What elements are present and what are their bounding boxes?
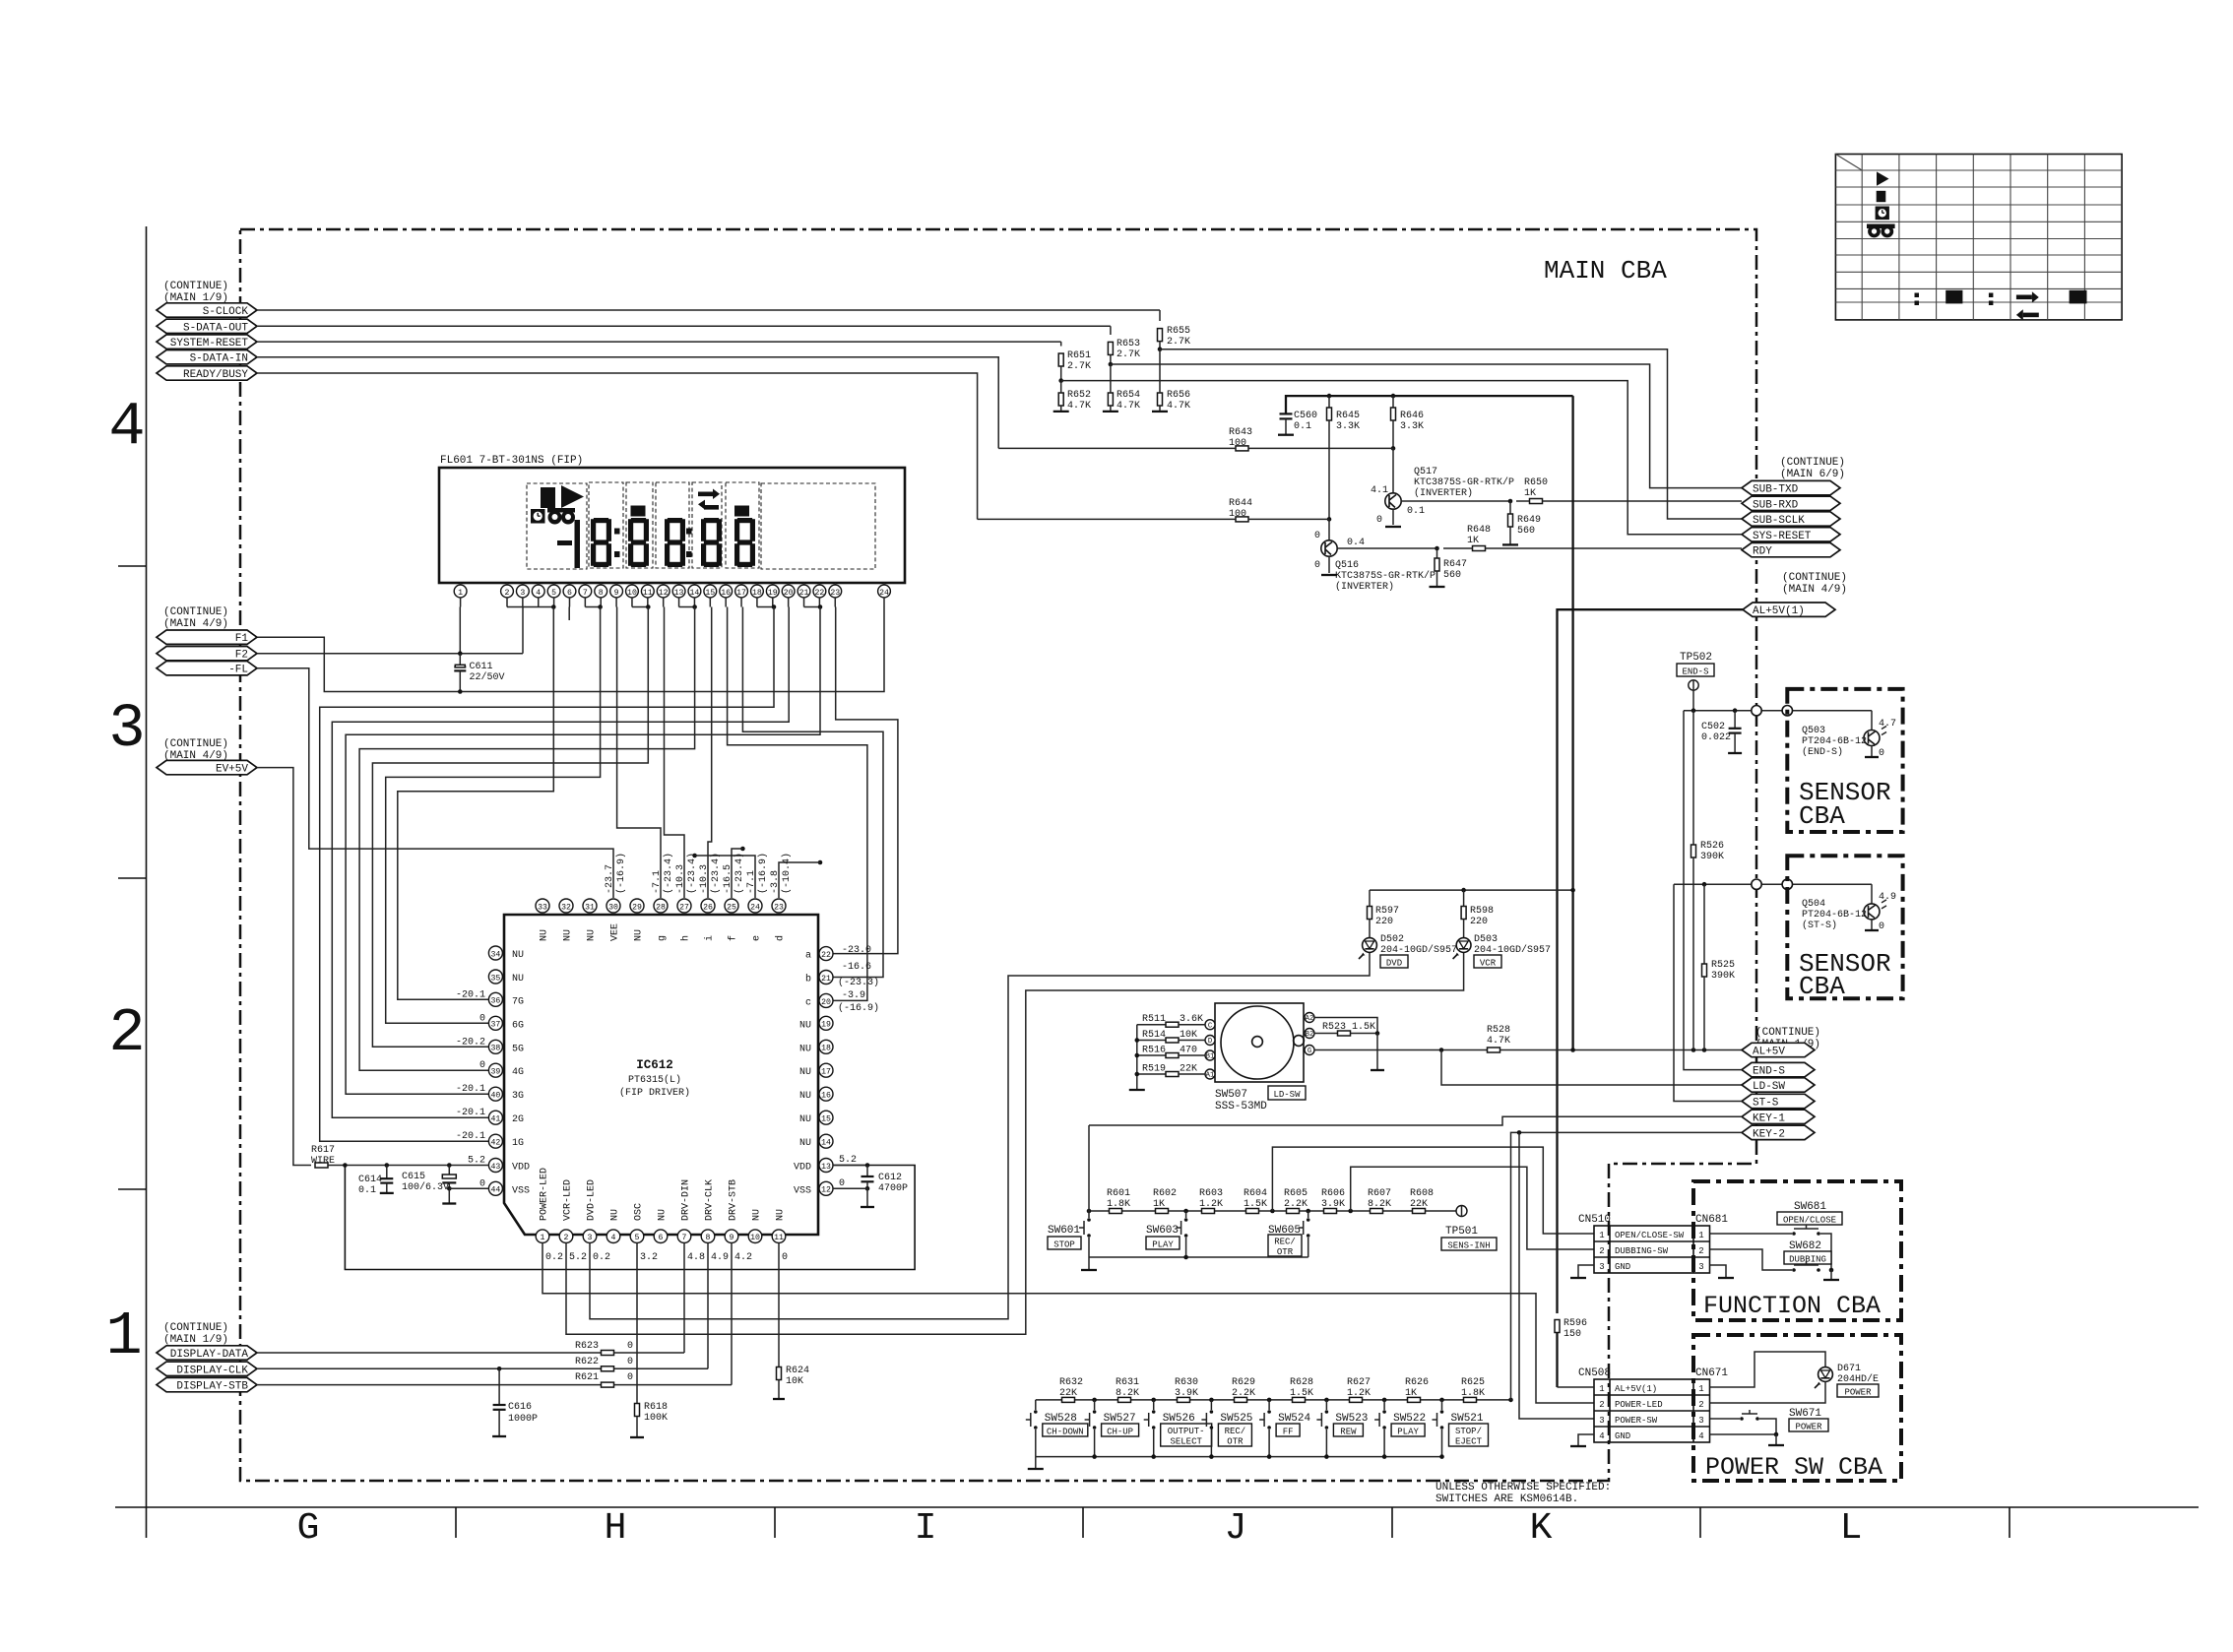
svg-text:4: 4 [1599,1431,1604,1441]
svg-text:C611: C611 [470,662,493,672]
svg-text:OPEN/CLOSE: OPEN/CLOSE [1783,1215,1836,1225]
svg-text:0: 0 [1879,921,1884,932]
svg-text:(-23.3): (-23.3) [838,977,879,988]
svg-text:R646: R646 [1400,411,1424,421]
node DISPLAY-STB flag [157,1377,257,1391]
svg-text:FF: FF [1283,1427,1294,1436]
svg-text:(INVERTER): (INVERTER) [1414,487,1473,499]
svg-text:3.9K: 3.9K [1321,1199,1345,1210]
svg-text:Q516: Q516 [1335,560,1359,571]
svg-text:6: 6 [567,589,572,598]
svg-text:REC/: REC/ [1274,1238,1296,1247]
R516 body [1166,1053,1179,1058]
svg-text:0.022: 0.022 [1701,732,1731,743]
svg-text:R628: R628 [1290,1377,1313,1388]
svg-text:0: 0 [627,1372,633,1383]
svg-text:R618: R618 [644,1402,668,1413]
resistor R626 [1408,1397,1421,1402]
svg-text:4.7K: 4.7K [1067,401,1091,412]
wire ST-S horizontal [1674,883,1872,885]
svg-text:GND: GND [1615,1431,1630,1441]
svg-text:b: b [805,974,811,985]
svg-text:R597: R597 [1375,906,1399,917]
svg-text:4: 4 [611,1234,616,1242]
svg-text:0: 0 [1314,531,1320,541]
svg-text:R526: R526 [1700,841,1724,852]
svg-text:33: 33 [538,903,547,912]
svg-text:1.5K: 1.5K [1290,1388,1313,1399]
svg-text:SYSTEM-RESET: SYSTEM-RESET [170,338,249,349]
svg-text:7: 7 [583,589,588,598]
svg-text:F2: F2 [235,650,248,662]
svg-text:0.4: 0.4 [1347,538,1365,548]
svg-text:19: 19 [821,1021,831,1030]
svg-text:11: 11 [643,589,653,598]
svg-text:A1: A1 [1206,1072,1215,1080]
svg-text:R644: R644 [1229,498,1252,509]
svg-text:R617: R617 [311,1145,335,1156]
wire to SUB-SCLK [1160,349,1742,519]
wire END-S to flag [1684,711,1742,1070]
svg-text:(-10.4): (-10.4) [781,853,793,894]
svg-text:26: 26 [703,903,713,912]
svg-text:-23.7: -23.7 [605,864,615,894]
svg-text:44: 44 [490,1186,500,1195]
resistor R523 [1314,1033,1338,1035]
svg-text:3.3K: 3.3K [1400,421,1424,432]
svg-text:43: 43 [490,1163,500,1172]
R623 body [602,1351,614,1356]
svg-text:G: G [1308,1048,1311,1055]
svg-text:R523 1.5K: R523 1.5K [1322,1022,1375,1033]
svg-text:NU: NU [776,1209,787,1221]
LED D671 POWER [1710,1352,1826,1387]
node SUB-RXD flag [1742,496,1840,510]
svg-text:VCR-LED: VCR-LED [563,1179,574,1221]
svg-text:1: 1 [1698,1231,1703,1240]
svg-text:22: 22 [821,951,831,960]
svg-text:8: 8 [706,1234,711,1242]
svg-text:REC/: REC/ [1225,1427,1246,1436]
svg-text:4.7: 4.7 [1879,719,1896,730]
svg-text:D503: D503 [1474,934,1498,945]
svg-text:3: 3 [520,589,525,598]
svg-text:SW521: SW521 [1451,1413,1484,1425]
resistor R656 [1158,393,1163,406]
svg-text:e: e [752,935,763,941]
svg-text:END-S: END-S [1753,1066,1785,1078]
resistor R653 [1108,342,1113,354]
svg-text:8.2K: 8.2K [1368,1199,1391,1210]
resistor R526 [1692,711,1694,845]
svg-text:5: 5 [635,1234,640,1242]
7-segment digits 8 8 8 8 8 [591,518,755,567]
svg-text:OSC: OSC [634,1203,645,1221]
svg-text:21: 21 [799,589,809,598]
svg-text:16: 16 [721,589,731,598]
svg-text:G: G [297,1507,320,1550]
svg-text:3.3K: 3.3K [1336,421,1360,432]
switch SW525 [1210,1400,1212,1410]
wire segment a b c nets to IC right pins [833,607,898,954]
svg-text:R603: R603 [1199,1188,1223,1199]
svg-text:NU: NU [799,1044,811,1054]
svg-text:KTC3875S-GR-RTK/P: KTC3875S-GR-RTK/P [1335,570,1435,582]
wire S-DATA-OUT [257,325,1111,327]
resistor R651 [1058,353,1063,366]
svg-text:PLAY: PLAY [1152,1239,1174,1249]
svg-text:POWER: POWER [1844,1387,1872,1397]
IC612 right pins 22-12 [819,947,833,961]
switch SW528 [1035,1400,1037,1410]
svg-text:-20.2: -20.2 [456,1037,485,1048]
svg-text:R598: R598 [1470,906,1494,917]
svg-text:4.9: 4.9 [711,1252,729,1263]
svg-text:31: 31 [585,903,595,912]
svg-text:NU: NU [658,1209,669,1221]
legend right arrow [2016,295,2032,300]
svg-text:2: 2 [564,1234,569,1242]
svg-text:TP502: TP502 [1680,652,1712,664]
svg-text:(ST-S): (ST-S) [1802,920,1837,931]
resistor R655 [1158,329,1163,342]
icon cassette [547,508,575,513]
svg-text:-10.3: -10.3 [675,864,686,894]
SENSOR CBA box 2 [1787,856,1902,998]
svg-text:R514: R514 [1142,1030,1166,1041]
resistor R602 [1156,1209,1169,1214]
resistor R514 [1137,1040,1166,1042]
svg-text:SW522: SW522 [1393,1413,1426,1425]
svg-text:DUBBING: DUBBING [1789,1254,1826,1264]
svg-text:STOP/: STOP/ [1455,1427,1482,1436]
resistor R511 [1137,1024,1166,1026]
svg-text:(-23.4): (-23.4) [710,853,722,894]
node SUB-SCLK flag [1742,512,1840,526]
svg-text:h: h [680,935,692,941]
svg-text:R525: R525 [1711,960,1735,971]
svg-text:H: H [605,1507,627,1550]
svg-text:-20.1: -20.1 [456,989,485,1000]
node DISPLAY-CLK flag [157,1362,257,1375]
resistor R652 [1058,393,1063,406]
svg-text:560: 560 [1517,526,1535,537]
wire row1 common to KEY-1 [1088,1125,1090,1211]
svg-text:0: 0 [839,1178,845,1189]
transistor Q504 sensor [1871,884,1873,904]
svg-text:6G: 6G [512,1020,524,1031]
svg-text:100: 100 [1229,438,1246,449]
svg-text:C616: C616 [508,1402,532,1413]
svg-text:1G: 1G [512,1138,524,1149]
svg-text:NU: NU [799,1091,811,1102]
svg-text:CH-DOWN: CH-DOWN [1047,1427,1084,1436]
switch SW521 [1441,1400,1443,1410]
svg-text:3: 3 [1599,1416,1604,1426]
svg-text:-16.6: -16.6 [842,962,871,973]
svg-text:(MAIN 6/9): (MAIN 6/9) [1780,469,1845,480]
svg-text:23: 23 [774,903,784,912]
node S-DATA-IN flag [157,350,257,364]
svg-text:(CONTINUE): (CONTINUE) [1782,572,1847,584]
wire KEY-2 net [1511,1132,1743,1400]
svg-text:-20.1: -20.1 [456,1131,485,1142]
wire S-DATA-IN to R643 [257,357,998,449]
svg-text:204HD/E: 204HD/E [1837,1373,1879,1385]
svg-text:DRV-DIN: DRV-DIN [681,1179,692,1221]
svg-text:NU: NU [634,929,645,941]
wire A2 to R523 junction [1314,1018,1377,1034]
svg-text:SUB-SCLK: SUB-SCLK [1753,515,1805,527]
svg-text:470: 470 [1180,1046,1197,1056]
POWER SW CBA box [1693,1335,1901,1481]
wire OSC pin5 to R618 [636,1243,638,1405]
svg-text:i: i [704,935,716,941]
svg-text:2.2K: 2.2K [1284,1199,1308,1210]
resistor R608 [1413,1209,1426,1214]
svg-text:R511: R511 [1142,1014,1166,1025]
node F1 flag [157,630,257,644]
svg-text:R631: R631 [1116,1377,1139,1388]
svg-text:0: 0 [782,1252,788,1263]
svg-text:SW507: SW507 [1215,1089,1247,1101]
resistor R644 [1236,517,1248,522]
resistor R645 body [1327,408,1332,420]
legend clock icon [1876,207,1889,221]
svg-text:(-16.9): (-16.9) [757,853,769,894]
resistor R603 [1202,1209,1215,1214]
svg-text:19: 19 [768,589,778,598]
svg-text:R608: R608 [1410,1188,1434,1199]
svg-text:R528: R528 [1487,1025,1510,1036]
svg-text:204-10GD/S957: 204-10GD/S957 [1380,944,1457,956]
svg-text:(CONTINUE): (CONTINUE) [163,1322,228,1334]
svg-text:R654: R654 [1116,390,1140,401]
R621 body [602,1382,614,1387]
resistor R606 [1324,1209,1337,1214]
svg-text:2: 2 [505,589,510,598]
svg-text:2.7K: 2.7K [1067,361,1091,372]
svg-text:RDY: RDY [1753,546,1772,558]
svg-text:-23.0: -23.0 [842,945,871,956]
svg-text:KTC3875S-GR-RTK/P: KTC3875S-GR-RTK/P [1414,477,1514,488]
svg-text:1K: 1K [1153,1199,1165,1210]
svg-text:NU: NU [587,929,598,941]
svg-text:36: 36 [490,997,500,1006]
svg-text:LD-SW: LD-SW [1273,1090,1301,1100]
svg-text:VDD: VDD [794,1163,811,1174]
wire POWER-LED net pin1 [542,1243,1594,1404]
test point TP501 [1456,1206,1467,1217]
R647 body [1435,558,1439,571]
svg-text:8: 8 [599,589,604,598]
svg-text:OTR: OTR [1277,1247,1294,1257]
svg-text:NU: NU [512,974,524,985]
svg-text:17: 17 [821,1068,831,1077]
svg-text:2: 2 [108,998,145,1068]
capacitor C615 [447,1163,452,1168]
svg-text:4.8: 4.8 [687,1252,705,1263]
svg-text:SSS-53MD: SSS-53MD [1215,1101,1267,1112]
resistor R525 [1703,884,1705,964]
resistor R632 [1062,1397,1075,1402]
transistor Q516 [1328,519,1330,540]
FUNCTION CBA box [1693,1181,1901,1320]
svg-text:R622: R622 [575,1357,599,1367]
wire ST-S to flag [1674,884,1742,1101]
svg-text:SW528: SW528 [1045,1413,1077,1425]
svg-text:DVD: DVD [1386,958,1402,968]
R618 body [635,1404,640,1417]
svg-text:390K: 390K [1711,971,1735,982]
svg-text:FL601 7-BT-301NS (FIP): FL601 7-BT-301NS (FIP) [440,455,583,467]
svg-text:2.7K: 2.7K [1167,337,1190,348]
svg-text:-16.5: -16.5 [723,864,734,894]
svg-text:0: 0 [479,1060,485,1071]
svg-text:K: K [1530,1507,1553,1550]
wire G line / AL+5V [1314,1049,1488,1051]
wire AL+5V rail [1286,396,1573,413]
svg-text:R655: R655 [1167,326,1190,337]
svg-text:0: 0 [1314,560,1320,571]
svg-text:SW524: SW524 [1278,1413,1310,1425]
svg-text:NU: NU [512,950,524,961]
svg-text:B1: B1 [1206,1053,1215,1061]
svg-text:R606: R606 [1321,1188,1345,1199]
svg-text:150: 150 [1563,1329,1581,1340]
wire DVD-LED net pin3 to D502 [590,953,1370,1319]
svg-text:VEE: VEE [610,923,621,941]
svg-text:15: 15 [705,589,715,598]
capacitor C502 [1734,711,1736,729]
svg-text:20: 20 [821,998,831,1007]
svg-text:CBA: CBA [1799,801,1845,831]
wire grid nets FL601 to IC612 left pins [320,607,774,1142]
svg-text:R652: R652 [1067,390,1091,401]
svg-text:4: 4 [108,392,145,462]
svg-text:REW: REW [1340,1427,1357,1436]
LED D671 body [1818,1367,1833,1382]
wire row2 bottom bus [1036,1456,1442,1458]
svg-text:PT6315(L): PT6315(L) [628,1074,681,1086]
capacitor C611 [459,654,461,667]
svg-text:D: D [1208,1038,1212,1046]
svg-text:d: d [775,935,787,941]
icon play triangle [561,485,584,508]
svg-text:FUNCTION CBA: FUNCTION CBA [1703,1292,1881,1320]
svg-text:(FIP DRIVER): (FIP DRIVER) [619,1087,690,1099]
svg-text:(-23.4): (-23.4) [734,853,745,894]
svg-text:R516: R516 [1142,1046,1166,1056]
svg-text:VDD: VDD [512,1163,530,1174]
svg-text:9: 9 [614,589,619,598]
svg-text:J: J [1225,1507,1247,1550]
svg-text:D671: D671 [1837,1364,1861,1374]
wire AL+5V(1) thick [1558,609,1744,1313]
svg-text:42: 42 [490,1139,500,1148]
svg-text:R651: R651 [1067,350,1091,361]
svg-text:40: 40 [490,1092,500,1101]
svg-text:1.2K: 1.2K [1199,1199,1223,1210]
svg-text:1K: 1K [1405,1388,1417,1399]
svg-text:R647: R647 [1443,559,1467,570]
svg-text:0.1: 0.1 [358,1185,376,1196]
node KEY-2 flag [1742,1125,1815,1139]
resistor R631 [1118,1397,1131,1402]
svg-text:2G: 2G [512,1114,524,1125]
svg-text:35: 35 [490,974,500,983]
icon stop square [541,487,555,508]
svg-text:4.9: 4.9 [1879,892,1896,903]
svg-text:22K: 22K [1410,1199,1428,1210]
R519 body [1166,1072,1179,1077]
svg-text:(CONTINUE): (CONTINUE) [1780,457,1845,469]
svg-text:NU: NU [799,1020,811,1031]
resistor R601 [1110,1209,1122,1214]
capacitor C560 [1280,413,1293,414]
svg-text:SW601: SW601 [1048,1225,1080,1237]
svg-text:NU: NU [540,929,550,941]
LED D503 [1456,938,1471,953]
border frame bottom horizontal [115,1506,2199,1508]
svg-text:21: 21 [821,975,831,984]
wire VCR-LED net pin2 to D503 [566,953,1464,1335]
svg-text:-FL: -FL [228,665,248,676]
resistor R643 [1236,446,1248,451]
svg-text:SW682: SW682 [1789,1240,1821,1252]
resistor R598 [1463,890,1465,906]
legend colon 1 [1915,293,1920,298]
svg-text:S-DATA-IN: S-DATA-IN [190,353,248,365]
svg-text:R643: R643 [1229,427,1252,438]
svg-text:PT204-6B-12: PT204-6B-12 [1802,736,1867,747]
svg-text:1.5K: 1.5K [1244,1199,1267,1210]
svg-text:R626: R626 [1405,1377,1429,1388]
svg-text:R629: R629 [1232,1377,1255,1388]
svg-text:NU: NU [610,1209,621,1221]
svg-text:18: 18 [752,589,762,598]
svg-text:-7.1: -7.1 [652,870,663,894]
resistor R654 [1108,393,1113,406]
svg-text:C615: C615 [402,1172,425,1182]
transistor Q504 [1864,904,1880,920]
svg-text:0: 0 [1879,748,1884,759]
wire READY/BUSY to R644 [257,373,978,519]
wire LD-SW branch [1441,1050,1742,1086]
svg-text:2: 2 [1599,1400,1604,1410]
svg-text:KEY-2: KEY-2 [1753,1128,1785,1140]
svg-text:3.9K: 3.9K [1175,1388,1198,1399]
icon record square 2 [734,506,749,517]
switch SW507 LD-SW [1215,1003,1304,1082]
svg-text:C614: C614 [358,1175,382,1185]
border frame left vertical [146,226,148,1538]
svg-text:17: 17 [736,589,746,598]
svg-text:R645: R645 [1336,411,1360,421]
svg-text:4.1: 4.1 [1371,485,1388,496]
svg-text:29: 29 [632,903,642,912]
svg-text:0.2: 0.2 [593,1252,610,1263]
wire CN510 pin3 gnd [1578,1265,1594,1277]
icon record square 1 [631,506,646,517]
svg-text:EV+5V: EV+5V [216,764,248,776]
icon clock [531,509,545,524]
svg-text:a: a [805,951,811,962]
wire F2 net with C611 [257,653,523,655]
svg-text:4: 4 [1698,1431,1703,1441]
svg-text:R625: R625 [1461,1377,1485,1388]
svg-text:SUB-TXD: SUB-TXD [1753,484,1799,496]
